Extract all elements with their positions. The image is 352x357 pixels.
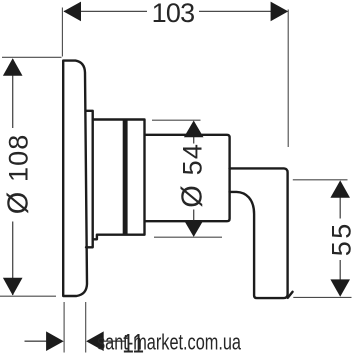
dim Ø108: dimension line upper segment: [12, 59, 14, 128]
sleeve groove band: [123, 120, 128, 234]
dim Ø54: top extension line: [152, 119, 201, 121]
dim 55: down arrowhead: [330, 279, 350, 296]
svg-text:Ø 54: Ø 54: [177, 143, 209, 208]
dim 55: dimension line lower segment: [339, 260, 341, 295]
dim 11: left arrowhead (points right): [46, 331, 64, 351]
dim Ø54: dimension line lower segment: [193, 210, 195, 237]
dim 103: left extension line: [61, 8, 63, 57]
dim 11: left extension line: [63, 302, 65, 353]
dim 103: dimension line left segment: [64, 10, 147, 12]
dim 11: right extension line: [85, 302, 87, 353]
dim Ø54: down arrowhead: [184, 220, 204, 237]
sleeve cylinder (Ø 54): [93, 120, 145, 240]
dim 103: left arrowhead: [63, 2, 81, 22]
dim Ø54: up arrowhead: [184, 121, 204, 138]
dim 11: dimension line right segment: [88, 340, 127, 342]
svg-text:55: 55: [326, 221, 352, 256]
collar ring behind sleeve: [86, 111, 93, 248]
dim Ø108: top extension line: [2, 56, 62, 58]
dim 11: right arrowhead (points left): [86, 331, 104, 351]
lever tip chamfer tick: [288, 292, 293, 298]
dim 103: right extension line: [287, 10, 289, 148]
dim 55: bottom extension line: [293, 296, 351, 298]
lever handle: [230, 168, 288, 298]
dim 55: dimension line upper segment: [339, 182, 341, 219]
dim 103: dimension line right segment: [199, 10, 287, 12]
dim Ø108: up arrowhead: [3, 58, 23, 76]
dim Ø108: dimension line lower segment: [12, 222, 14, 296]
dim 103: right arrowhead: [271, 2, 289, 22]
escutcheon plate (round wall plate, side profile): [63, 61, 87, 296]
dim Ø108: bottom extension line: [0, 295, 56, 297]
svg-text:sant-market.com.ua: sant-market.com.ua: [97, 330, 241, 355]
dim Ø54: dimension line upper segment: [193, 122, 195, 144]
svg-text:Ø 108: Ø 108: [2, 134, 34, 215]
svg-text:103: 103: [152, 0, 195, 28]
dim 55: top extension line: [293, 179, 348, 181]
dim 11: dimension line left segment: [25, 340, 63, 342]
dim 55: up arrowhead: [330, 180, 350, 197]
dim Ø54: bottom extension line: [154, 236, 222, 238]
dim Ø108: down arrowhead: [3, 278, 23, 296]
handle hub cylinder: [145, 135, 230, 221]
